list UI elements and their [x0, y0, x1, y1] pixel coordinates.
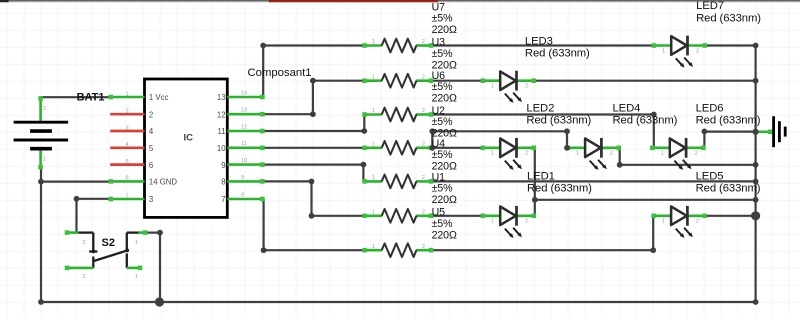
top red bar	[269, 0, 438, 3]
svg-text:Red (633nm): Red (633nm)	[525, 48, 590, 60]
svg-text:1: 1	[135, 274, 138, 280]
svg-text:1: 1	[372, 74, 375, 80]
svg-text:12: 12	[241, 124, 247, 130]
svg-text:6: 6	[149, 161, 153, 170]
svg-text:4: 4	[149, 127, 154, 136]
svg-text:S2: S2	[102, 237, 115, 249]
svg-text:2: 2	[422, 39, 425, 45]
svg-text:LED3: LED3	[525, 35, 553, 47]
LED LED1	[481, 206, 537, 238]
svg-text:9: 9	[241, 175, 244, 181]
wire IC pin8 to resistor row6	[263, 181, 363, 215]
wire resistor U5 to LED1	[432, 215, 482, 217]
wire LED3 to right rail	[535, 80, 756, 82]
svg-text:1: 1	[576, 151, 579, 157]
svg-text:2: 2	[83, 274, 86, 280]
IC Composant1	[109, 79, 265, 217]
svg-text:10: 10	[241, 158, 247, 164]
wire resistor U6 to LED3	[432, 80, 482, 82]
ground	[756, 116, 786, 147]
svg-text:LED1: LED1	[527, 170, 555, 182]
label LED3	[525, 35, 590, 59]
svg-text:LED2: LED2	[526, 102, 554, 114]
svg-text:U4: U4	[432, 138, 446, 150]
svg-text:U6: U6	[432, 70, 446, 82]
svg-text:12: 12	[217, 110, 226, 119]
svg-text:Red (633nm): Red (633nm)	[696, 115, 761, 127]
wire LED7 to right rail and bottom return	[41, 46, 756, 303]
svg-text:9: 9	[221, 161, 225, 170]
svg-text:BAT1: BAT1	[77, 91, 105, 103]
svg-text:LED7: LED7	[696, 0, 724, 12]
resistor U6	[362, 74, 433, 88]
svg-text:LED5: LED5	[696, 170, 724, 182]
svg-text:220Ω: 220Ω	[432, 194, 457, 206]
junction big right	[751, 211, 760, 220]
wire IC pin12 to resistor row2	[263, 81, 363, 115]
wire IC pin13 up to resistor row1	[263, 46, 363, 98]
switch S2	[65, 230, 148, 279]
resistor U1	[362, 175, 433, 189]
svg-text:1: 1	[662, 48, 665, 54]
svg-text:2: 2	[422, 141, 425, 147]
junction	[157, 230, 163, 236]
junction	[361, 128, 367, 134]
junction	[429, 145, 435, 151]
svg-text:1: 1	[135, 240, 138, 246]
LED LED6	[650, 138, 706, 170]
pin stub 6	[110, 163, 144, 166]
svg-text:4: 4	[126, 142, 129, 148]
svg-text:2: 2	[525, 219, 528, 225]
svg-text:1: 1	[491, 84, 494, 90]
LED LED2	[481, 138, 537, 170]
junction	[361, 162, 367, 168]
svg-text:2: 2	[422, 74, 425, 80]
junction	[309, 213, 315, 219]
value label U6	[432, 70, 457, 105]
svg-text:8: 8	[241, 192, 244, 198]
svg-text:2: 2	[43, 106, 46, 112]
LED LED3	[481, 71, 537, 103]
svg-text:6: 6	[126, 176, 129, 182]
svg-text:1: 1	[372, 209, 375, 215]
resistor U4	[362, 141, 433, 155]
ground junction	[753, 129, 759, 135]
wire resistor U4 to LED2	[432, 147, 482, 149]
wire IC pin9 to resistor row5	[263, 165, 363, 182]
svg-text:14 GND: 14 GND	[149, 178, 178, 187]
junction	[753, 78, 759, 84]
wire battery minus down	[40, 169, 42, 303]
junction	[564, 145, 570, 151]
pin stub 4	[110, 130, 144, 133]
svg-text:2: 2	[695, 151, 698, 157]
svg-text:11: 11	[241, 141, 246, 147]
junction	[753, 179, 759, 185]
svg-text:±5%: ±5%	[432, 149, 454, 161]
wire battery minus to IC pin 14 GND	[41, 181, 110, 183]
svg-text:2: 2	[422, 175, 425, 181]
svg-text:2: 2	[525, 84, 528, 90]
wire IC pin7 down to resistor row7	[264, 199, 364, 250]
svg-text:1: 1	[491, 151, 494, 157]
svg-text:1: 1	[372, 108, 375, 114]
svg-text:±5%: ±5%	[432, 183, 454, 195]
svg-text:Red (633nm): Red (633nm)	[696, 183, 761, 195]
svg-text:1: 1	[126, 91, 129, 97]
label LED4	[613, 102, 678, 126]
svg-text:Red (633nm): Red (633nm)	[613, 115, 678, 127]
wire IC pin10 to resistor row4	[263, 147, 363, 149]
svg-text:2: 2	[422, 209, 425, 215]
junction big bottom	[155, 297, 164, 306]
svg-text:2: 2	[525, 151, 528, 157]
junction	[532, 197, 538, 203]
wire LED6 to ground node	[704, 132, 755, 148]
svg-text:Red (633nm): Red (633nm)	[527, 183, 592, 195]
svg-text:1: 1	[372, 244, 375, 250]
svg-text:1 Vcc: 1 Vcc	[149, 93, 169, 102]
junction	[702, 129, 708, 135]
svg-text:±5%: ±5%	[432, 81, 454, 93]
svg-text:1: 1	[662, 219, 665, 225]
label LED2	[526, 102, 591, 126]
junction	[651, 112, 657, 118]
label LED7	[696, 0, 761, 24]
label LED1	[527, 170, 592, 194]
svg-text:1: 1	[372, 39, 375, 45]
svg-text:2: 2	[696, 219, 699, 225]
battery BAT1	[14, 96, 69, 170]
wire mid junction to right rail	[535, 199, 756, 201]
svg-text:2: 2	[422, 244, 425, 250]
wire IC pin11 to resistor row3	[263, 115, 364, 132]
resistor U5	[362, 209, 433, 223]
junction	[617, 162, 623, 168]
svg-text:8: 8	[221, 178, 225, 187]
svg-text:2: 2	[610, 151, 613, 157]
junction	[310, 78, 316, 84]
svg-text:±5%: ±5%	[432, 116, 454, 128]
svg-text:11: 11	[218, 127, 226, 136]
svg-text:1: 1	[372, 141, 375, 147]
svg-text:2: 2	[422, 108, 425, 114]
svg-text:2: 2	[83, 240, 86, 246]
svg-text:±5%: ±5%	[432, 48, 454, 60]
label LED6	[696, 102, 761, 126]
wire resistor U4 node to LED4	[432, 131, 567, 148]
wire resistor row7 up to LED5	[432, 216, 653, 250]
junction	[261, 247, 267, 253]
svg-text:1: 1	[372, 175, 375, 181]
junction	[753, 43, 759, 49]
junction	[650, 247, 656, 253]
svg-text:U2: U2	[432, 105, 446, 117]
svg-text:LED4: LED4	[613, 102, 641, 114]
svg-text:LED6: LED6	[696, 102, 724, 114]
resistor U2	[362, 108, 433, 122]
resistor U3	[362, 39, 433, 53]
svg-text:U3: U3	[432, 37, 446, 49]
value label U4	[432, 138, 457, 173]
svg-text:220Ω: 220Ω	[432, 93, 457, 105]
svg-text:Red (633nm): Red (633nm)	[696, 12, 761, 24]
svg-text:5: 5	[149, 144, 154, 153]
junction	[74, 196, 80, 202]
wire LED4 cathode to right rail	[620, 148, 756, 165]
svg-text:13: 13	[217, 93, 226, 102]
junction	[309, 179, 315, 185]
svg-text:IC: IC	[184, 132, 194, 143]
svg-text:13: 13	[241, 108, 247, 114]
junction	[38, 299, 44, 305]
svg-text:3: 3	[126, 125, 129, 131]
junction	[564, 128, 570, 134]
wire BAT1+ to IC pin1	[41, 96, 111, 98]
svg-text:U5: U5	[432, 207, 446, 219]
svg-text:7: 7	[126, 193, 129, 199]
value label U5	[432, 207, 457, 242]
svg-text:5: 5	[126, 159, 129, 165]
wire resistor U3 to LED7	[432, 44, 653, 46]
wire LED5 to right rail	[706, 215, 756, 217]
svg-text:Composant1: Composant1	[248, 67, 312, 79]
junction	[753, 197, 759, 203]
top left black segment	[0, 0, 9, 2]
wire switch S2 to bottom return	[146, 233, 160, 302]
svg-text:U7: U7	[432, 1, 446, 13]
pin stub 2	[110, 113, 144, 116]
LED LED5	[651, 206, 707, 238]
label LED5	[696, 170, 761, 194]
svg-text:1: 1	[491, 219, 494, 225]
svg-text:14: 14	[241, 90, 247, 96]
resistor R7	[362, 243, 433, 257]
pin stub 5	[110, 146, 144, 149]
value label U1	[432, 171, 457, 206]
junction	[429, 128, 435, 134]
svg-text:±5%: ±5%	[432, 218, 454, 230]
svg-text:±5%: ±5%	[432, 13, 454, 25]
wire LED2 cathode down to LED1	[534, 148, 536, 216]
svg-text:Red (633nm): Red (633nm)	[526, 115, 591, 127]
value label U7	[432, 1, 457, 36]
svg-text:10: 10	[217, 144, 226, 153]
junction	[310, 111, 316, 117]
wire IC pin3 to switch S2	[77, 199, 111, 233]
junction	[753, 162, 759, 168]
svg-text:U1: U1	[432, 171, 446, 183]
svg-text:220Ω: 220Ω	[432, 24, 457, 36]
value label U3	[432, 37, 457, 72]
junction	[260, 43, 266, 49]
svg-text:1: 1	[43, 157, 46, 163]
svg-text:2: 2	[149, 110, 153, 119]
svg-text:1: 1	[661, 151, 664, 157]
svg-text:220Ω: 220Ω	[432, 230, 457, 242]
junction	[753, 299, 759, 305]
svg-text:7: 7	[221, 195, 225, 204]
svg-text:2: 2	[126, 109, 129, 115]
wire resistor U1 to right rail	[432, 180, 756, 182]
value label U2	[432, 105, 457, 140]
wire resistor U2 to LED6	[432, 115, 654, 148]
svg-text:3: 3	[149, 195, 153, 204]
junction	[38, 179, 44, 185]
LED LED7	[652, 36, 708, 68]
top gray bar	[0, 0, 800, 3]
svg-text:2: 2	[696, 48, 699, 54]
LED LED4	[565, 138, 621, 170]
